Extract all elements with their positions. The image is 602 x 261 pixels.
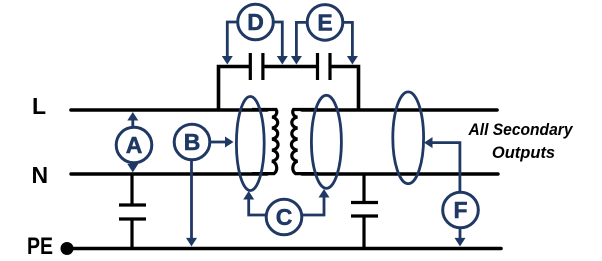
wire secondary top lead [302,108,497,112]
meter B [174,124,210,160]
meter A [116,127,152,163]
arrow from D to bridge left of CY1 [222,22,238,65]
meter D [238,4,274,40]
svg-text:B: B [184,129,201,155]
svg-text:Outputs: Outputs [492,144,555,162]
transformer T1 primary winding [252,110,278,174]
svg-text:C: C [276,204,293,230]
arrow from F to probe P3 [424,137,460,192]
wire N [71,172,267,175]
wire PE [67,247,501,251]
capacitor CX2 between secondary bottom and PE [351,174,378,249]
current probe P2 around secondary leads [311,95,341,188]
svg-text:A: A [126,132,143,158]
capacitor CX1 between N and PE [119,174,146,249]
arrow from C to probe P2 [302,189,330,215]
arrow from D to bridge right of CY1 [274,22,288,65]
wire riser left to Y-caps [219,67,251,111]
current probe P1 around primary leads [236,97,264,191]
wire secondary bottom lead [302,172,498,175]
label All Secondary Outputs [468,121,574,162]
capacitor CY1 [250,53,263,80]
arrow from B to PE [186,160,197,247]
arrow from E to bridge left of CY2 [291,22,307,64]
svg-text:F: F [453,197,467,223]
wire L [71,108,267,112]
transformer T1 secondary winding [291,110,318,174]
svg-text:E: E [317,10,332,36]
node PE junction [61,242,74,255]
meter E [307,5,343,41]
wire bridge middle segment [263,65,318,69]
svg-text:L: L [32,93,46,119]
svg-text:N: N [32,162,49,188]
arrow from E to bridge right of CY2 [343,22,358,64]
current probe P3 around all secondary outputs [393,92,424,184]
arrow from C to probe P1 [243,191,266,215]
svg-text:All Secondary: All Secondary [468,121,574,139]
arrow from A to L [127,112,138,127]
meter C [266,199,302,235]
meter F [443,192,479,228]
wire riser right from Y-caps [330,67,359,111]
arrow from A to N [127,163,138,172]
svg-text:D: D [247,9,264,35]
svg-text:PE: PE [27,233,53,260]
capacitor CY2 [318,53,331,80]
arrow from B to probe P1 [210,137,234,148]
arrow from F to PE [455,228,466,246]
